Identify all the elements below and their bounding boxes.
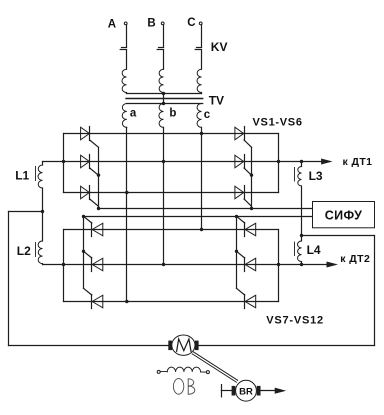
wire secondary top line bbox=[127, 103, 203, 105]
junction right bus upper bbox=[277, 160, 280, 163]
thyristor VS3 bbox=[81, 186, 99, 207]
secondary winding a bbox=[122, 104, 127, 128]
wire lower bridge left bus bbox=[63, 230, 65, 302]
label KV bbox=[211, 40, 228, 54]
wire armature bottom right bbox=[199, 345, 375, 347]
wire A lead bbox=[126, 25, 128, 48]
label L1 bbox=[15, 168, 29, 182]
label L2 bbox=[17, 244, 31, 258]
thyristor VS12 bbox=[237, 288, 256, 308]
wire phase a feeder bbox=[126, 127, 128, 301]
shaft M-BR bbox=[192, 352, 237, 382]
contactor KV pole C bbox=[195, 48, 201, 70]
label phase C bbox=[187, 17, 195, 29]
label VS7-VS12 bbox=[266, 315, 324, 327]
label L3 bbox=[309, 169, 323, 183]
wire upper bridge right bus bbox=[278, 134, 280, 193]
label c bbox=[204, 109, 211, 121]
junction gate ll2 bbox=[82, 250, 85, 253]
svg-text:TV: TV bbox=[209, 94, 224, 108]
wire BR output bbox=[261, 388, 285, 393]
wire upper left gate bus bbox=[98, 147, 100, 208]
thyristor VS10 bbox=[237, 216, 256, 236]
svg-text:VS1-VS6: VS1-VS6 bbox=[253, 116, 303, 128]
contactor KV pole A bbox=[120, 48, 126, 70]
junction gate ur bbox=[250, 173, 253, 176]
block SIFU bbox=[313, 202, 375, 228]
thyristor VS2 bbox=[81, 155, 99, 176]
primary winding C bbox=[197, 69, 202, 93]
primary winding A bbox=[122, 69, 127, 93]
junction primary B bbox=[162, 92, 165, 95]
junction gate lr bbox=[235, 215, 238, 218]
svg-text:c: c bbox=[204, 109, 211, 121]
secondary winding b bbox=[159, 104, 164, 128]
reactor L1 bbox=[36, 165, 43, 188]
wire phase b feeder bbox=[163, 127, 165, 264]
junction phase c lower bbox=[200, 228, 203, 231]
svg-text:b: b bbox=[169, 108, 176, 120]
field winding OV bbox=[157, 367, 209, 373]
wire upper bottom row bbox=[64, 192, 279, 194]
label k DT2 bbox=[340, 253, 370, 265]
terminal B bbox=[161, 22, 164, 25]
thyristor VS11 bbox=[237, 251, 256, 271]
wire armature right run bbox=[302, 236, 375, 346]
wire L3 top link bbox=[301, 162, 303, 167]
junction gate ur2 bbox=[250, 207, 253, 210]
svg-text:C: C bbox=[187, 17, 195, 29]
svg-text:к ДТ1: к ДТ1 bbox=[343, 156, 373, 168]
secondary winding c bbox=[197, 104, 202, 128]
junction gate ul bbox=[97, 173, 100, 176]
wire upper top row bbox=[64, 133, 279, 135]
motor M bbox=[168, 335, 198, 355]
thyristor VS8 bbox=[84, 251, 103, 271]
transformer TV core bbox=[126, 98, 203, 100]
label k DT1 bbox=[343, 156, 373, 168]
thyristor VS5 bbox=[235, 155, 252, 176]
wire L1 top link bbox=[43, 162, 64, 166]
wire armature bottom left bbox=[9, 345, 169, 347]
svg-text:a: a bbox=[130, 108, 137, 120]
junction DT1 bbox=[300, 160, 303, 163]
wire upper bridge left bus bbox=[63, 134, 65, 193]
label OV bbox=[173, 379, 194, 395]
thyristor VS4 bbox=[235, 127, 252, 148]
wire lower right gate bus bbox=[236, 217, 238, 289]
wire B link bbox=[163, 94, 165, 104]
wire lower bottom row bbox=[64, 301, 279, 303]
junction phase a lower bbox=[125, 300, 128, 303]
wire lower mid row / k DT2 line bbox=[64, 262, 337, 267]
label phase A bbox=[108, 18, 116, 30]
label TV bbox=[209, 94, 224, 108]
junction secondary b bbox=[162, 102, 165, 105]
terminal A bbox=[124, 22, 127, 25]
wire lower bridge right bus bbox=[278, 230, 280, 302]
label VS1-VS6 bbox=[253, 116, 303, 128]
junction right bus lower bbox=[277, 263, 280, 266]
contactor KV pole B bbox=[157, 48, 163, 70]
junction DT2 bbox=[300, 263, 303, 266]
wire L1-L2 link bbox=[42, 188, 44, 241]
junction phase b upper bbox=[162, 160, 165, 163]
junction phase c upper bbox=[200, 132, 203, 135]
junction phase a upper bbox=[125, 191, 128, 194]
label b bbox=[169, 108, 176, 120]
thyristor VS1 bbox=[81, 127, 99, 148]
reactor L4 bbox=[295, 241, 302, 262]
junction gate ll bbox=[82, 215, 85, 218]
junction gate ul2 bbox=[97, 207, 100, 210]
junction L2 bus bbox=[62, 263, 65, 266]
primary winding B bbox=[159, 69, 164, 93]
thyristor VS7 bbox=[84, 216, 103, 236]
svg-text:СИФУ: СИФУ bbox=[325, 208, 363, 222]
reactor L2 bbox=[36, 241, 43, 264]
thyristor VS9 bbox=[84, 288, 103, 308]
junction armature right bbox=[300, 234, 303, 237]
wire L2 bottom link bbox=[43, 263, 64, 266]
junction gate lr2 bbox=[235, 250, 238, 253]
wire gate line lower to SIFU bbox=[84, 216, 313, 218]
svg-text:к ДТ2: к ДТ2 bbox=[340, 253, 370, 265]
tachogenerator BR bbox=[221, 380, 260, 401]
svg-text:L1: L1 bbox=[15, 168, 29, 182]
wire B lead bbox=[163, 25, 165, 48]
wire L4 bottom link bbox=[301, 262, 303, 265]
wire phase c feeder bbox=[201, 127, 203, 229]
svg-text:VS7-VS12: VS7-VS12 bbox=[266, 315, 324, 327]
wire lower left gate bus bbox=[83, 217, 85, 289]
wire upper mid row / k DT1 line bbox=[64, 159, 331, 164]
wire C lead bbox=[201, 25, 203, 48]
thyristor VS6 bbox=[235, 186, 252, 207]
wire armature left drop bbox=[9, 212, 43, 346]
wire lower top row bbox=[64, 229, 279, 231]
wire upper right gate bus bbox=[251, 147, 253, 208]
svg-text:A: A bbox=[108, 18, 116, 30]
svg-text:L3: L3 bbox=[309, 169, 323, 183]
wire L3-L4 link bbox=[301, 186, 303, 241]
wire gate line upper to SIFU bbox=[99, 208, 313, 210]
label L4 bbox=[307, 243, 321, 257]
svg-text:L4: L4 bbox=[307, 243, 321, 257]
svg-text:B: B bbox=[147, 17, 155, 29]
junction phase b lower bbox=[162, 263, 165, 266]
svg-text:L2: L2 bbox=[17, 244, 31, 258]
reactor L3 bbox=[295, 167, 302, 187]
wire primary star line bbox=[127, 93, 202, 95]
terminal C bbox=[199, 22, 202, 25]
label phase B bbox=[147, 17, 155, 29]
label a bbox=[130, 108, 137, 120]
svg-text:KV: KV bbox=[211, 40, 228, 54]
svg-text:BR: BR bbox=[239, 386, 253, 397]
junction L1 bus bbox=[62, 160, 65, 163]
junction armature left bbox=[41, 210, 44, 213]
